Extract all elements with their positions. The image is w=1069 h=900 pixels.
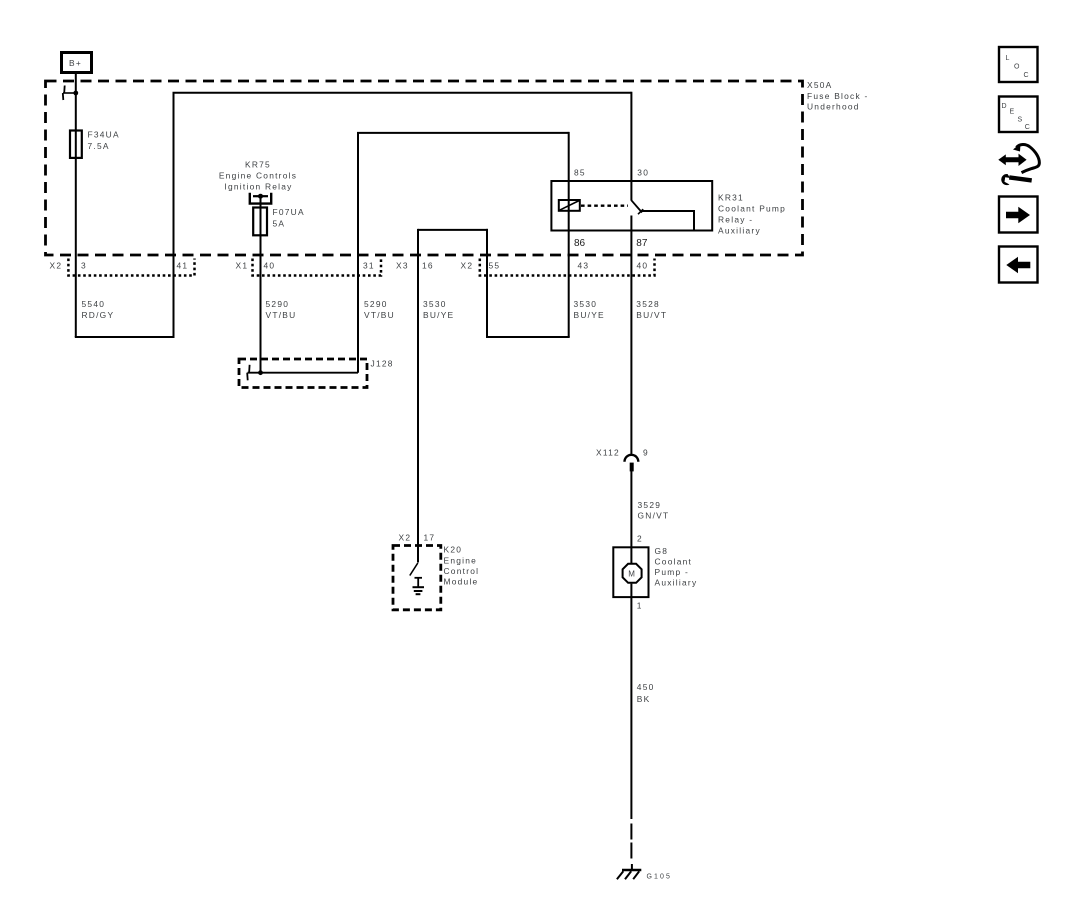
- svg-text:450: 450: [637, 682, 655, 692]
- svg-text:16: 16: [422, 261, 434, 271]
- take-out hook at B+ node: [63, 86, 78, 101]
- next arrow button: [999, 197, 1038, 233]
- svg-text:Engine Controls: Engine Controls: [219, 171, 297, 181]
- wire label 450 BK: [637, 682, 655, 704]
- svg-text:BK: BK: [637, 694, 651, 704]
- svg-text:X2: X2: [461, 261, 474, 271]
- connector row: X3 pin 16 labels: [396, 261, 434, 271]
- wire: coil 85/86 drop: [568, 132, 570, 337]
- svg-text:5A: 5A: [273, 219, 286, 229]
- svg-text:9: 9: [643, 448, 649, 458]
- ECM driver switch blade: [410, 563, 418, 576]
- svg-text:Coolant: Coolant: [655, 557, 693, 567]
- svg-text:1: 1: [637, 601, 643, 611]
- svg-text:KR31: KR31: [718, 193, 744, 203]
- svg-text:D: D: [1002, 103, 1008, 110]
- label KR75 Engine Controls Ignition Relay: [219, 160, 297, 192]
- junction dot J128: [258, 370, 263, 375]
- svg-text:K20: K20: [444, 545, 463, 555]
- wire: left loop bottom 5540 to riser: [75, 336, 174, 338]
- wire 3529: X112 to G8: [630, 471, 632, 564]
- svg-text:BU/VT: BU/VT: [636, 310, 667, 320]
- wire label 5540 RD/GY: [82, 299, 115, 320]
- wire label 3529 GN/VT: [638, 500, 670, 521]
- svg-text:Auxiliary: Auxiliary: [718, 226, 761, 236]
- svg-text:Engine: Engine: [444, 556, 478, 566]
- ECM K20 dashed box: [393, 533, 441, 610]
- svg-text:40: 40: [264, 261, 276, 271]
- svg-text:Underhood: Underhood: [807, 102, 860, 112]
- ECM internal ground symbol: [413, 578, 425, 594]
- svg-text:85: 85: [574, 168, 586, 178]
- relay switch blade: [631, 200, 643, 214]
- wire 3530: drop to ECM pin 17: [417, 229, 419, 563]
- wire label 5290 VT/BU (pin 31): [364, 299, 395, 320]
- connector row: X2 dotted box (pins 55 / 43 / 40): [461, 259, 655, 276]
- label K20 Engine Control Module: [444, 545, 480, 587]
- svg-text:Module: Module: [444, 577, 479, 587]
- svg-text:G105: G105: [647, 874, 673, 881]
- relay KR31 box: [551, 181, 712, 231]
- svg-text:BU/YE: BU/YE: [574, 310, 605, 320]
- wrench: [1009, 175, 1032, 182]
- svg-text:17: 17: [424, 533, 436, 543]
- wire: drop to relay pin 30: [630, 92, 632, 201]
- svg-text:J128: J128: [371, 359, 394, 369]
- svg-text:7.5A: 7.5A: [88, 141, 110, 151]
- svg-text:X2: X2: [50, 261, 63, 271]
- svg-text:31: 31: [363, 261, 375, 271]
- label X50A Fuse Block - Underhood: [807, 80, 869, 112]
- svg-text:S: S: [1018, 116, 1023, 123]
- svg-text:Relay -: Relay -: [718, 215, 753, 225]
- svg-text:30: 30: [637, 168, 649, 178]
- svg-text:VT/BU: VT/BU: [364, 310, 395, 320]
- svg-text:G8: G8: [655, 546, 669, 556]
- wire: top bus to relay pin 30: [173, 92, 632, 94]
- svg-text:X2: X2: [399, 533, 412, 543]
- relay KR75 feed bracket symbol: [250, 193, 271, 204]
- svg-text:Control: Control: [444, 566, 480, 576]
- svg-text:87: 87: [636, 238, 648, 249]
- svg-text:L: L: [1006, 55, 1011, 62]
- wire label 3528 BU/VT (pin 40): [636, 299, 667, 320]
- svg-text:X50A: X50A: [807, 80, 833, 90]
- svg-text:2: 2: [637, 534, 643, 544]
- svg-text:Pump -: Pump -: [655, 567, 690, 577]
- svg-text:F07UA: F07UA: [273, 207, 305, 217]
- wire 87 drop to X112: [630, 216, 632, 456]
- wire: riser to pin 41: [173, 93, 175, 338]
- svg-text:Coolant Pump: Coolant Pump: [718, 204, 786, 214]
- svg-text:3: 3: [81, 261, 87, 271]
- wire 5540: B+ down through F34UA to X2-3: [75, 74, 77, 338]
- DESC button: [999, 97, 1038, 133]
- svg-text:86: 86: [574, 238, 586, 249]
- wire: internal bridge 55 to 16: [418, 229, 488, 231]
- wire 5290: riser pin 31 up: [357, 133, 359, 373]
- svg-text:GN/VT: GN/VT: [638, 511, 670, 521]
- svg-text:C: C: [1025, 124, 1031, 131]
- svg-text:X3: X3: [396, 261, 409, 271]
- svg-text:5290: 5290: [266, 299, 290, 309]
- svg-text:X112: X112: [596, 448, 620, 458]
- svg-text:5290: 5290: [364, 299, 388, 309]
- svg-text:55: 55: [489, 261, 501, 271]
- splice pack J128 dashed box: [239, 359, 394, 388]
- svg-text:BU/YE: BU/YE: [423, 310, 454, 320]
- wire label 3530 BU/YE (pin 16): [423, 299, 454, 320]
- svg-text:43: 43: [578, 261, 590, 271]
- svg-text:C: C: [1024, 72, 1030, 79]
- label KR31 Coolant Pump Relay - Auxiliary: [718, 193, 786, 236]
- wire label 3530 BU/YE (pin 43): [574, 299, 605, 320]
- LOC button: [999, 47, 1038, 82]
- svg-text:KR75: KR75: [245, 160, 271, 170]
- relay contact routing line: [642, 211, 694, 230]
- fuse block X50A dashed outline: [46, 81, 803, 255]
- svg-text:X1: X1: [236, 261, 249, 271]
- motor M symbol: [623, 564, 642, 583]
- curved jump arrow: [1017, 145, 1040, 173]
- back arrow button: [999, 247, 1038, 283]
- connector X112 pin 9: [596, 448, 649, 472]
- junction dot B+ node: [73, 91, 78, 96]
- svg-text:5540: 5540: [82, 299, 106, 309]
- svg-text:3530: 3530: [574, 299, 598, 309]
- double arrow: [998, 154, 1026, 166]
- coolant pump G8 box: [613, 547, 648, 597]
- X112 female arc: [625, 455, 639, 462]
- svg-text:3529: 3529: [638, 500, 662, 510]
- diagnostic tool icon: [998, 144, 1039, 186]
- svg-text:O: O: [1014, 64, 1020, 71]
- X112 male terminal bar: [630, 463, 634, 472]
- svg-text:Fuse Block -: Fuse Block -: [807, 91, 869, 101]
- connector row: X1 dotted box (pins 40 / 31): [236, 259, 382, 276]
- svg-text:M: M: [628, 570, 635, 579]
- relay actuation dotted link: [581, 204, 628, 206]
- wire label 5290 VT/BU (pin 40): [266, 299, 297, 320]
- svg-text:RD/GY: RD/GY: [82, 310, 115, 320]
- svg-text:VT/BU: VT/BU: [266, 310, 297, 320]
- svg-text:3528: 3528: [636, 299, 660, 309]
- svg-text:40: 40: [637, 261, 649, 271]
- B+ battery feed box: [62, 53, 92, 73]
- svg-text:B+: B+: [69, 58, 82, 68]
- wire: horizontal feed to relay coil 85: [357, 132, 569, 134]
- relay coil KR31: [559, 200, 580, 211]
- label G8 Coolant Pump - Auxiliary: [655, 546, 698, 588]
- wire 450 dashed continuation: [630, 824, 633, 871]
- ground G105: [617, 870, 672, 881]
- svg-text:3530: 3530: [423, 299, 447, 309]
- svg-text:41: 41: [177, 261, 189, 271]
- J128 internal bus and take-out hook: [247, 365, 358, 381]
- connector row: X2 dotted box (pins 3 / 41): [50, 259, 195, 276]
- wire 450: G8 to ground: [630, 584, 632, 819]
- svg-text:Auxiliary: Auxiliary: [655, 578, 698, 588]
- wire: U loop 43 to 55: [487, 229, 569, 337]
- wire: KR75 to F07UA to J128: [260, 196, 262, 373]
- svg-text:F34UA: F34UA: [88, 130, 120, 140]
- fuse F07UA: [253, 207, 305, 235]
- svg-text:E: E: [1010, 109, 1015, 116]
- svg-text:Ignition Relay: Ignition Relay: [224, 182, 292, 192]
- fuse F34UA: [70, 130, 120, 158]
